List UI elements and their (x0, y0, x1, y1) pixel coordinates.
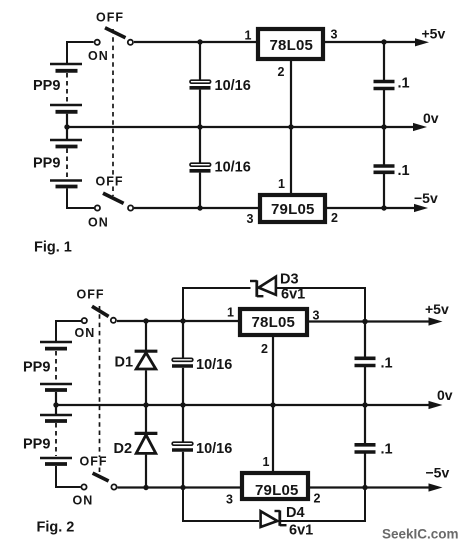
svg-text:OFF: OFF (77, 288, 105, 302)
switch S2a pole circle left (82, 318, 87, 323)
capacitor C7 .1 plate top (355, 356, 376, 360)
wire C2 top lead (199, 127, 201, 163)
wire C4 bottom lead (383, 174, 385, 208)
switch S1b pole circle left (95, 205, 100, 210)
svg-text:3: 3 (331, 28, 338, 42)
wire 0v rail (56, 404, 429, 406)
battery B2 cell2 long plate (50, 179, 82, 182)
svg-text:+5v: +5v (425, 301, 449, 317)
wire D1 bottom lead (145, 370, 147, 405)
svg-text:0v: 0v (423, 110, 439, 126)
wire +5v output rail (325, 41, 416, 43)
diode D2 cathode bar (135, 432, 158, 435)
capacitor C6 10/16 positive hollow plate (172, 442, 193, 445)
node D1/D2 on 0v rail (143, 402, 148, 407)
svg-text:.1: .1 (381, 356, 393, 372)
svg-text:.1: .1 (398, 163, 410, 179)
arrow +5v output (415, 38, 429, 46)
arrow -5v output (429, 483, 443, 491)
node output cap C4 bottom (381, 205, 386, 210)
wire +5v output rail (307, 320, 430, 322)
wire C1 bottom lead (199, 90, 201, 127)
wire battery B2 to bottom switch (67, 188, 94, 208)
switch S1a ganged dashed link (112, 29, 114, 176)
battery B4 (bottom PP9) cell1 long plate (40, 414, 72, 417)
wire D4 to right rise (281, 488, 365, 522)
wire battery B4 to bottom switch (56, 466, 81, 487)
wire C4 top lead (383, 127, 385, 166)
battery B3 cell1 long plate (40, 341, 72, 344)
battery B1 cell1 long plate (50, 63, 82, 66)
switch S2a lever (92, 306, 109, 316)
svg-text:3: 3 (313, 309, 320, 323)
battery B1 (top PP9) wire to top rail (67, 42, 94, 64)
wire battery B1 to 0v node (66, 114, 68, 127)
node C8 bottom on -5v rail (362, 485, 367, 490)
diode D2 triangle (136, 435, 156, 454)
svg-text:D2: D2 (114, 441, 133, 457)
capacitor C7 .1 plate bottom (355, 364, 376, 368)
switch S2b pole circle left (81, 484, 86, 489)
zener D4 cathode bottom tick (280, 524, 287, 526)
svg-text:1: 1 (278, 177, 285, 191)
capacitor C4 .1 plate bottom (374, 171, 395, 175)
node C2 bottom on -5v rail (197, 205, 202, 210)
wire C5 bottom lead (182, 368, 184, 405)
wire -5v output rail (308, 486, 430, 488)
wire C3 bottom lead (383, 90, 385, 127)
svg-text:ON: ON (73, 494, 94, 508)
wire D3 branch up from input rail (183, 288, 251, 321)
diode D1 cathode bar (135, 350, 158, 353)
capacitor C2 10/16 positive hollow plate (190, 163, 211, 166)
zener D4 cathode bar (278, 510, 281, 525)
svg-text:1: 1 (263, 455, 270, 469)
svg-text:2: 2 (278, 65, 285, 79)
capacitor C2 negative plate (190, 169, 211, 173)
battery B1 cell2 short plate (56, 110, 78, 114)
svg-text:−5v: −5v (426, 465, 450, 481)
wire +9v input rail (switch to U3 pin1) (117, 320, 240, 322)
switch S2 ganged dashed link (99, 306, 101, 457)
wire 0v node to battery B4 (55, 405, 57, 415)
wire C1 top lead (199, 42, 201, 80)
svg-text:2: 2 (261, 342, 268, 356)
wire +9v rail (switch to regulator input) (134, 41, 257, 43)
battery B2 (bottom PP9) cell1 long plate (50, 139, 82, 142)
zener D4 cathode top tick (275, 510, 280, 512)
switch S1b lever (103, 193, 124, 203)
regulator U4 79L05 box (242, 473, 308, 499)
node C6 bottom / D4 branch (180, 485, 185, 490)
wire 0v rail (67, 126, 414, 128)
svg-text:Fig. 2: Fig. 2 (37, 520, 75, 536)
battery B3 cell2 short plate (45, 388, 67, 392)
arrow 0v output (413, 123, 427, 131)
wire C6 top lead (182, 405, 184, 442)
capacitor C3 .1 plate top (374, 80, 395, 84)
capacitor C6 negative plate (172, 448, 193, 452)
svg-text:6v1: 6v1 (281, 287, 305, 303)
node C5 top / D3 branch (180, 318, 185, 323)
wire D2 bottom lead (145, 455, 147, 488)
node 0v at C7/C8 junction (362, 402, 367, 407)
capacitor C5 negative plate (172, 364, 193, 368)
node output cap C3 top (381, 39, 386, 44)
battery B3 internal dashed link (55, 351, 57, 382)
zener D3 cathode bottom tick (257, 295, 264, 297)
node D1 top (143, 318, 148, 323)
zener D4 triangle (pointing right) (261, 511, 278, 527)
wire C7 bottom lead (364, 367, 366, 405)
battery B2 cell2 short plate (56, 185, 78, 189)
svg-text:2: 2 (314, 492, 321, 506)
wire D3 to right drop (276, 288, 365, 322)
node C7 top on +5v rail (362, 319, 367, 324)
svg-text:D1: D1 (115, 354, 134, 370)
node D2 bottom on -5v rail (143, 485, 148, 490)
wire battery B3 to 0v node (55, 392, 57, 405)
battery B3 cell2 long plate (40, 383, 72, 386)
svg-text:6v1: 6v1 (289, 523, 313, 539)
node: battery centre tap on 0v rail (64, 124, 69, 129)
capacitor C3 .1 plate bottom (374, 87, 395, 91)
svg-text:D4: D4 (286, 505, 305, 521)
svg-text:PP9: PP9 (23, 437, 50, 453)
svg-text:10/16: 10/16 (215, 160, 251, 176)
capacitor C1 negative plate (190, 86, 211, 90)
battery B1 internal dashed link (66, 73, 68, 103)
zener D3 cathode bar (255, 280, 258, 297)
wire D4 branch down from -5v input rail (183, 488, 259, 522)
node battery centre tap on 0v rail (53, 402, 58, 407)
svg-text:3: 3 (247, 212, 254, 226)
battery B2 cell1 short plate (56, 145, 78, 149)
svg-text:10/16: 10/16 (196, 441, 232, 457)
capacitor C1 10/16 positive hollow plate (190, 80, 211, 83)
wire D2 top lead (145, 405, 147, 433)
svg-text:Fig. 1: Fig. 1 (34, 240, 72, 256)
svg-text:+5v: +5v (422, 26, 446, 42)
node cap C1 top (197, 39, 202, 44)
battery B4 cell1 short plate (45, 419, 67, 423)
svg-text:D3: D3 (280, 272, 299, 288)
arrow -5v output (414, 204, 428, 212)
svg-text:1: 1 (245, 29, 252, 43)
capacitor C8 .1 plate top (355, 443, 376, 447)
battery B4 cell2 long plate (40, 457, 72, 460)
wire C5 top lead (182, 321, 184, 358)
svg-text:SeekIC.com: SeekIC.com (382, 527, 459, 542)
node C1 bottom on 0v rail (197, 124, 202, 129)
switch S1b throw circle right (128, 205, 133, 210)
zener D3 cathode top tick (250, 280, 257, 282)
svg-text:OFF: OFF (96, 175, 124, 189)
battery B2 internal dashed link (66, 149, 68, 179)
svg-text:OFF: OFF (80, 455, 108, 469)
svg-text:78L05: 78L05 (270, 37, 314, 54)
zener D3 triangle (pointing left) (259, 277, 276, 295)
switch S2a throw circle right (111, 318, 116, 323)
battery B1 cell1 short plate (56, 69, 78, 73)
wire -5v rail left (switch to U2 pin3) (134, 207, 260, 209)
capacitor C4 .1 plate top (374, 164, 395, 168)
svg-text:1: 1 (227, 306, 234, 320)
battery B1 cell2 long plate (50, 104, 82, 107)
svg-text:ON: ON (88, 49, 109, 63)
regulator U1 78L05 box (258, 29, 323, 59)
battery B3 cell1 short plate (45, 347, 67, 351)
switch S1a lever (105, 28, 126, 38)
wire 0v node to battery B2 (66, 127, 68, 140)
svg-text:ON: ON (75, 326, 96, 340)
wire C8 top lead (364, 405, 366, 444)
wire -5v input rail (switch to U4 pin3) (118, 486, 243, 488)
svg-text:ON: ON (88, 216, 109, 230)
wire U3 pin2 / U4 pin1 common ground lead (272, 337, 274, 473)
svg-text:−5v: −5v (414, 190, 438, 206)
switch S2b throw circle right (111, 484, 116, 489)
regulator U2 79L05 box (260, 195, 325, 222)
wire D1 top lead (145, 321, 147, 351)
wire C2 bottom lead (199, 173, 201, 208)
switch S1a pole circle left (95, 40, 100, 45)
svg-text:2: 2 (331, 211, 338, 225)
svg-text:10/16: 10/16 (215, 78, 251, 94)
node D3 drop on +5v rail (362, 319, 367, 324)
node ground lead on 0v rail (288, 124, 293, 129)
node ground lead on 0v rail (270, 402, 275, 407)
svg-text:79L05: 79L05 (255, 482, 299, 499)
battery B4 cell2 short plate (45, 462, 67, 466)
wire U1 pin2 / U2 pin1 common ground lead (290, 61, 292, 195)
capacitor C8 .1 plate bottom (355, 450, 376, 454)
svg-text:PP9: PP9 (33, 78, 60, 94)
wire C7 top lead (364, 322, 366, 358)
diode D1 triangle (136, 353, 156, 369)
svg-text:.1: .1 (381, 442, 393, 458)
arrow 0v output (429, 401, 443, 409)
svg-text:0v: 0v (437, 387, 453, 403)
arrow +5v output (429, 317, 443, 325)
wire C6 bottom lead (182, 452, 184, 488)
capacitor C5 10/16 positive hollow plate (172, 358, 193, 361)
svg-text:3: 3 (226, 493, 233, 507)
svg-text:PP9: PP9 (23, 360, 50, 376)
svg-text:79L05: 79L05 (271, 201, 315, 218)
switch S2b lever (93, 473, 109, 481)
node 0v at C3/C4 junction (381, 124, 386, 129)
svg-text:.1: .1 (398, 76, 410, 92)
battery B3 (top PP9) wire to top rail (56, 321, 81, 342)
wire C3 top lead (383, 42, 385, 80)
regulator U3 78L05 box (240, 309, 307, 335)
svg-text:10/16: 10/16 (196, 357, 232, 373)
wire -5v output rail (327, 207, 415, 209)
node C5/C6 on 0v rail (180, 402, 185, 407)
battery B4 internal dashed link (55, 423, 57, 456)
wire C8 bottom lead (364, 454, 366, 488)
switch S1a throw circle right (128, 40, 133, 45)
svg-text:78L05: 78L05 (252, 314, 296, 331)
svg-text:PP9: PP9 (33, 156, 60, 172)
svg-text:OFF: OFF (96, 11, 124, 25)
